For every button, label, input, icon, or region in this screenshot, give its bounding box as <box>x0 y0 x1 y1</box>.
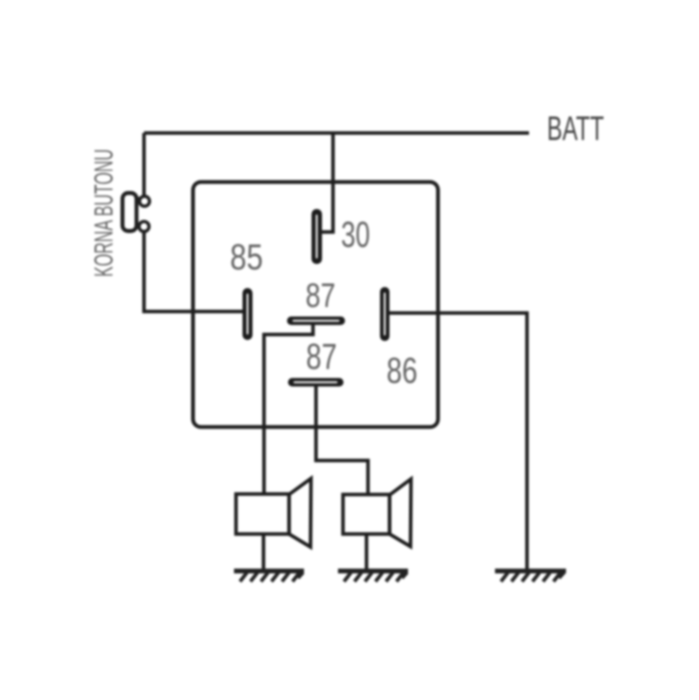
svg-text:87: 87 <box>306 336 337 377</box>
svg-text:BATT: BATT <box>547 110 604 148</box>
svg-text:86: 86 <box>387 350 418 391</box>
svg-text:KORNA BUTONU: KORNA BUTONU <box>89 149 119 277</box>
svg-text:30: 30 <box>341 214 370 255</box>
svg-text:87: 87 <box>306 277 336 315</box>
svg-text:85: 85 <box>230 237 263 278</box>
